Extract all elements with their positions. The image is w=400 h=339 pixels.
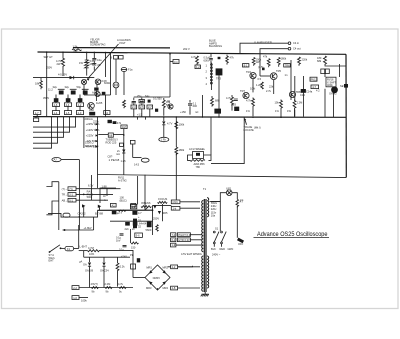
wire: F to column bbox=[74, 248, 79, 250]
wire: x96 drop bbox=[97, 117, 99, 188]
wire: bus tick2 bbox=[145, 117, 147, 120]
transistor TR1a circle bbox=[95, 91, 100, 96]
transformer T1 secondary winding lower bbox=[207, 256, 209, 288]
node: junction dot heater row2 bbox=[83, 194, 85, 196]
wire: drop to R29 bbox=[117, 257, 119, 263]
resistor R18 above bus bbox=[252, 98, 255, 117]
tag box row2 a bbox=[52, 111, 59, 115]
tag box A1 bbox=[111, 203, 117, 207]
tag box e2 bbox=[72, 296, 79, 300]
node: arrow -22V bbox=[96, 134, 99, 136]
switch S1b arm bbox=[221, 232, 226, 243]
tag box 88 tube delay bbox=[108, 133, 113, 137]
RV15 pot box bbox=[310, 77, 317, 81]
thyristor CSR1 circle with X bbox=[81, 79, 86, 84]
transistor TR4 circle bbox=[250, 73, 256, 79]
svg-text:50µ: 50µ bbox=[77, 85, 82, 89]
diode D6 lead bbox=[99, 206, 101, 210]
svg-text:1-8: 1-8 bbox=[140, 99, 144, 103]
bridge diode MR3 bbox=[149, 281, 152, 284]
svg-text:6.3V: 6.3V bbox=[88, 183, 94, 187]
svg-text:A FLYWHEEL: A FLYWHEEL bbox=[189, 147, 206, 151]
wire: intens feed column bbox=[137, 176, 139, 204]
transformer T1 secondary winding upper bbox=[207, 198, 209, 217]
diode D3 bar bbox=[122, 152, 125, 154]
diode D8 bbox=[102, 263, 105, 266]
svg-text:BLK: BLK bbox=[211, 247, 216, 251]
wire m3 drop bbox=[149, 109, 151, 117]
svg-text:0.1/350: 0.1/350 bbox=[153, 97, 162, 101]
svg-text:2-8: 2-8 bbox=[172, 286, 176, 290]
junction dot e bbox=[105, 52, 107, 54]
wire: TR1 emitter down bbox=[96, 85, 98, 88]
node: arrow +64V bbox=[96, 140, 99, 142]
svg-text:1-4: 1-4 bbox=[54, 111, 58, 115]
tag box pair right bbox=[325, 69, 329, 74]
tag box pair left bbox=[321, 69, 325, 74]
SK1 pin 6 bbox=[211, 79, 213, 81]
svg-text:350V: 350V bbox=[43, 96, 49, 100]
svg-text:250V: 250V bbox=[46, 66, 52, 70]
wire: e2 row line bbox=[79, 297, 88, 299]
wire: x145 drop bbox=[144, 175, 146, 210]
wire: box rows link c bbox=[79, 106, 81, 110]
svg-text:OA202: OA202 bbox=[78, 211, 87, 215]
svg-text:7-0: 7-0 bbox=[172, 233, 176, 237]
tag box row1 c bbox=[76, 103, 83, 107]
wire: vertical from bus x46.7 bbox=[46, 52, 48, 117]
resistor R38 far left bbox=[40, 80, 43, 89]
svg-text:TR7: TR7 bbox=[240, 89, 245, 93]
tag box row2 b bbox=[64, 111, 71, 115]
tag box far left lower bbox=[34, 118, 39, 122]
wire: transformer right taps bbox=[210, 201, 221, 203]
resistor R22 10k bbox=[162, 98, 165, 116]
connector strip SK1 bbox=[210, 63, 212, 90]
wire: terminal in to bus riser bbox=[240, 43, 288, 53]
switch S1b contact bottom bbox=[221, 242, 223, 244]
wire: right HT vertical drop bbox=[345, 54, 347, 177]
junction dot f bbox=[169, 53, 171, 55]
gang control dark circle bbox=[331, 86, 338, 93]
electrolytic C9 below TR2 bbox=[89, 112, 95, 116]
wire: C4out column into TR5 bbox=[259, 58, 261, 76]
capacitor C12 bbox=[234, 99, 238, 100]
resistor R26 below flywheel bbox=[190, 159, 205, 161]
svg-text:0.5: 0.5 bbox=[258, 77, 262, 81]
svg-text:2.7k: 2.7k bbox=[266, 89, 272, 93]
wire: EHT column x78.7 bbox=[78, 225, 80, 249]
tag box 7A bbox=[104, 111, 110, 115]
resistor R19 above bus bbox=[280, 100, 283, 117]
junction dot d bbox=[94, 52, 96, 54]
wire: D7 down bbox=[89, 266, 91, 287]
wire: f2 drop bbox=[132, 144, 134, 151]
wire: grid rail y174.5 bbox=[98, 175, 347, 178]
pot RV10 zigzag bbox=[141, 206, 151, 208]
svg-text:mA: mA bbox=[116, 152, 120, 156]
mid top tag box m3 bbox=[147, 105, 153, 109]
C7 plate bbox=[70, 88, 77, 90]
svg-text:C4 in: C4 in bbox=[293, 41, 300, 45]
svg-text:2.2M: 2.2M bbox=[105, 282, 111, 286]
svg-text:X AMPLIFIER: X AMPLIFIER bbox=[254, 41, 272, 45]
bridge rectifier diamond bbox=[145, 265, 170, 290]
svg-text:2-2: 2-2 bbox=[73, 286, 77, 290]
wire: lamp left loop bbox=[211, 193, 226, 202]
svg-text:47k: 47k bbox=[230, 55, 235, 59]
resistor R10 4.7k left of SK bbox=[196, 56, 199, 65]
chassis ground stem bbox=[204, 292, 206, 294]
svg-text:47k(?): 47k(?) bbox=[91, 282, 98, 286]
transistor TR10 internals bbox=[169, 105, 171, 108]
wire: bus tick1 bbox=[137, 117, 139, 120]
wire: f2 column down bbox=[132, 151, 134, 158]
svg-text:OFF: OFF bbox=[238, 242, 244, 246]
tag box h2 bbox=[68, 193, 76, 197]
svg-text:SCREW/TAG: SCREW/TAG bbox=[90, 43, 106, 47]
wire: mid link y160 flyback to trigger bbox=[175, 153, 177, 190]
RV16 X shift box bbox=[326, 77, 336, 87]
diode D5 lead bbox=[83, 206, 85, 217]
resistor R11 bbox=[226, 55, 229, 65]
svg-text:1W: 1W bbox=[79, 61, 83, 65]
svg-text:AB→: AB→ bbox=[62, 198, 68, 202]
resistor R2 4.7M vertical bbox=[62, 52, 65, 76]
title underline bbox=[254, 236, 330, 238]
svg-text:S1: S1 bbox=[215, 227, 219, 231]
transistor TR1 circle bbox=[95, 79, 101, 85]
resistor R34 lamp bbox=[236, 199, 239, 207]
transistor TR8 circle bbox=[289, 91, 295, 97]
wire: top EHT link y230 bbox=[63, 229, 94, 231]
svg-text:68k: 68k bbox=[317, 59, 322, 63]
capacitor C24 top right EHT bbox=[120, 234, 124, 235]
wire: feed box link bbox=[170, 61, 173, 63]
resistor R31 2.2k bbox=[105, 287, 112, 289]
zener D1 stack bbox=[85, 60, 89, 76]
svg-text:±480V: ±480V bbox=[153, 276, 161, 280]
svg-text:150: 150 bbox=[131, 246, 136, 250]
switch S1a contact top bbox=[213, 231, 215, 233]
svg-text:TR6: TR6 bbox=[285, 63, 290, 67]
wire: e1 row line bbox=[79, 287, 133, 289]
resistor R21 180k right bbox=[324, 56, 327, 65]
wire: left HT stub bbox=[130, 229, 132, 243]
transistor TR7 circle bbox=[243, 92, 249, 98]
diode D10 bbox=[158, 211, 161, 214]
switch S2 throw dot bbox=[60, 247, 62, 249]
wire h2 right bbox=[76, 193, 113, 195]
svg-text:680: 680 bbox=[215, 99, 220, 103]
tag box f2 bbox=[130, 140, 135, 144]
wire: xshift drop a bbox=[324, 89, 326, 117]
svg-text:1.2k: 1.2k bbox=[256, 83, 262, 87]
svg-text:4.7V: 4.7V bbox=[167, 122, 173, 126]
wire: bias rail y210.4 bbox=[98, 209, 153, 211]
electrolytic C7 bbox=[71, 91, 76, 95]
tag box C small bbox=[131, 203, 136, 207]
wire: RV10 feed column bbox=[91, 175, 93, 200]
svg-text:SET: SET bbox=[340, 84, 345, 88]
transistor TR2 circle bbox=[88, 103, 95, 110]
svg-text:F1a: F1a bbox=[128, 68, 133, 72]
SK1 pin 2 bbox=[211, 67, 213, 69]
svg-text:220k: 220k bbox=[302, 58, 308, 62]
svg-text:1kV: 1kV bbox=[116, 238, 121, 242]
svg-text:C4 out: C4 out bbox=[293, 47, 301, 51]
terminal C4 in bbox=[288, 42, 291, 45]
tag box e1 bbox=[72, 286, 79, 290]
tag box HT left bbox=[135, 233, 143, 237]
transistor TR1 internals bbox=[97, 80, 100, 84]
svg-text:500k: 500k bbox=[87, 195, 93, 199]
transistor TR5 circle bbox=[270, 73, 277, 80]
svg-text:1-5: 1-5 bbox=[66, 111, 70, 115]
wire: trigger column x176.3 bbox=[175, 117, 177, 147]
svg-text:BLANKING: BLANKING bbox=[209, 44, 222, 48]
tag box mid extra bbox=[139, 99, 144, 102]
svg-text:(7)→: (7)→ bbox=[62, 187, 68, 191]
svg-text:ILP1: ILP1 bbox=[226, 186, 232, 190]
resistor R12 4.7k above bus bbox=[231, 95, 234, 111]
transformer T1 core left line bbox=[203, 199, 205, 292]
svg-text:OAC34: OAC34 bbox=[100, 269, 109, 273]
wire: flywheel loop right bbox=[204, 155, 212, 160]
oval tag bottom left bbox=[63, 213, 70, 217]
wire: box rows link a bbox=[55, 106, 57, 110]
svg-text:5600: 5600 bbox=[146, 228, 152, 232]
svg-text:RV15: RV15 bbox=[311, 77, 318, 81]
svg-text:PE: PE bbox=[130, 253, 134, 257]
svg-text:MR4: MR4 bbox=[163, 286, 169, 290]
tag box 2-2 bridge top bbox=[171, 265, 178, 269]
resistor R13 100k bbox=[252, 57, 255, 65]
wire: vertical from bus x86.7 bbox=[86, 52, 88, 60]
transistor TR1a internals bbox=[96, 92, 98, 95]
svg-text:10a: 10a bbox=[211, 214, 216, 218]
svg-text:47k: 47k bbox=[117, 121, 122, 125]
svg-text:MR1: MR1 bbox=[147, 266, 153, 270]
junction dot j bbox=[280, 116, 282, 118]
wire: blanking column vertical bbox=[123, 129, 125, 175]
svg-text:.05: .05 bbox=[97, 63, 101, 67]
svg-text:L-EHT: L-EHT bbox=[80, 245, 88, 249]
pot RV12 zigzag bbox=[158, 201, 168, 203]
svg-text:1-6: 1-6 bbox=[131, 205, 135, 209]
svg-text:180k: 180k bbox=[281, 56, 287, 60]
wire: bridge left lead bbox=[133, 277, 145, 279]
wire: EHT link vertical bbox=[93, 217, 95, 230]
svg-text:Advance OS25 Oscilloscope: Advance OS25 Oscilloscope bbox=[257, 231, 328, 238]
svg-text:MR3: MR3 bbox=[146, 286, 152, 290]
svg-text:250V: 250V bbox=[153, 217, 159, 221]
svg-text:2-1: 2-1 bbox=[69, 193, 73, 197]
svg-text:SET HT: SET HT bbox=[44, 55, 54, 59]
wire: vertical x116 below boxes bbox=[115, 59, 117, 67]
wire: terminal out leftward bbox=[260, 49, 288, 58]
svg-text:LOCATE: LOCATE bbox=[244, 128, 254, 132]
wire: R28 lead left bbox=[79, 250, 88, 252]
svg-text:HTR 6.3V: HTR 6.3V bbox=[178, 238, 190, 242]
resistor R23 680 bbox=[211, 96, 214, 107]
capacitor C31 blob mid bbox=[155, 109, 158, 112]
wire: EHT sub bus y257 bbox=[84, 256, 130, 258]
wire: emitter links y82 bbox=[252, 79, 254, 93]
svg-text:15k: 15k bbox=[275, 101, 280, 105]
oval tag L bbox=[159, 137, 169, 141]
switch S1a arm bbox=[214, 232, 219, 243]
wire: x162.5 vertical bbox=[162, 204, 164, 221]
diode D6 bbox=[98, 205, 101, 208]
wire: bracket long vertical bbox=[58, 182, 60, 230]
bridge diode MR4 bbox=[162, 281, 165, 284]
transformer T1 core right line bbox=[205, 199, 207, 292]
tag box on feed column bbox=[173, 60, 179, 64]
capacitor C11 bbox=[209, 54, 213, 63]
svg-text:4 2: 4 2 bbox=[316, 89, 320, 93]
wire: lower bias rail y221 bbox=[110, 220, 153, 222]
wire: bridge bottom lead bbox=[178, 287, 200, 289]
label: 5th arrow extra bbox=[96, 146, 99, 148]
resistor R28 4.7M EHT bbox=[88, 250, 100, 252]
junction dot a bbox=[46, 51, 48, 53]
svg-text:GRN: GRN bbox=[228, 247, 234, 251]
wire: base link TR5 bbox=[260, 75, 270, 77]
svg-text:SWG: SWG bbox=[211, 201, 217, 205]
wire: trace locate arrow bbox=[245, 119, 247, 125]
wire: TR3 column to bus bbox=[218, 95, 220, 117]
wire: xshift drop b bbox=[333, 93, 335, 118]
wire: A7 line right bbox=[61, 159, 79, 161]
svg-text:200mA: 200mA bbox=[85, 117, 93, 121]
TR6 tag box bbox=[284, 64, 291, 67]
capacitor C20 on right vertical bbox=[344, 84, 348, 88]
resistor R24 100k bbox=[175, 122, 178, 129]
svg-text:4.7k: 4.7k bbox=[226, 96, 232, 100]
resistor R37 left HT bbox=[131, 242, 138, 244]
electrolytic C8b bbox=[78, 98, 83, 102]
svg-text:+120V 10%: +120V 10% bbox=[86, 128, 100, 132]
svg-text:7A: 7A bbox=[105, 111, 108, 115]
svg-text:11.2: 11.2 bbox=[48, 88, 53, 92]
svg-text:2W: 2W bbox=[57, 62, 61, 66]
switch S1b contact top bbox=[221, 231, 223, 233]
transistor TR5 internals bbox=[272, 74, 275, 78]
switch S2 EHT diagonal bbox=[50, 245, 61, 252]
tag box row1 b bbox=[64, 103, 71, 107]
transistor TR10 circle mid bbox=[168, 104, 173, 109]
svg-text:1.25: 1.25 bbox=[121, 159, 127, 163]
node: arrow +225V bbox=[96, 123, 99, 125]
svg-text:2-2: 2-2 bbox=[172, 265, 176, 269]
svg-text:TR3: TR3 bbox=[216, 76, 221, 80]
svg-text:1 PE/C8: 1 PE/C8 bbox=[109, 158, 120, 162]
junction dot b bbox=[62, 51, 64, 53]
SK1 pin 3 bbox=[211, 70, 213, 72]
capacitor C18 inside flywheel bbox=[196, 153, 200, 156]
connector boxes B pair second bbox=[119, 56, 124, 60]
transformer T1 primary winding upper bbox=[202, 201, 204, 252]
svg-text:1M: 1M bbox=[122, 125, 126, 129]
svg-text:600Ω: 600Ω bbox=[104, 81, 110, 85]
wire: flywheel loop left bbox=[188, 155, 193, 160]
switch OFF blob bbox=[237, 238, 244, 244]
diode D9 focus bbox=[153, 206, 156, 209]
svg-text:C14a: C14a bbox=[306, 90, 313, 94]
svg-text:2-2: 2-2 bbox=[78, 103, 82, 107]
wire: bias rail left hook bbox=[48, 210, 98, 217]
wire: staircase drop 3 bbox=[33, 117, 64, 138]
wire: x105.5 lower continue bbox=[105, 95, 107, 117]
svg-text:µA: µA bbox=[79, 259, 82, 263]
svg-text:FOCUS: FOCUS bbox=[158, 197, 167, 201]
flywheel box bbox=[193, 152, 204, 159]
tag box h3 bbox=[68, 198, 76, 202]
svg-text:AB2: AB2 bbox=[89, 108, 94, 112]
junction dot n bbox=[152, 209, 154, 211]
transformer T1 primary winding lower bbox=[202, 256, 204, 291]
junction dot k bbox=[163, 116, 165, 118]
wire: zener column from bus bbox=[163, 117, 165, 121]
switch S2 pole dot bbox=[49, 251, 51, 253]
resistor R20 above bus bbox=[293, 100, 296, 117]
bridge diode MR2 bbox=[162, 270, 165, 273]
diode D7 bbox=[88, 263, 91, 266]
svg-text:(Mk I): (Mk I) bbox=[254, 126, 261, 130]
electrolytic C6 bbox=[59, 91, 64, 95]
electrolytic C19 on bias rail bbox=[112, 211, 117, 214]
capacitor C33 blob mid2 bbox=[148, 100, 151, 103]
power transistor TR3 dark bbox=[216, 68, 223, 75]
capacitor C25 bbox=[123, 245, 127, 246]
svg-text:+225V: +225V bbox=[86, 133, 94, 137]
wire: staircase drop 2 bbox=[33, 117, 70, 133]
oval tag 14-5 bbox=[141, 158, 149, 162]
resistor R25 180k bbox=[175, 147, 178, 155]
svg-text:2-4: 2-4 bbox=[66, 103, 70, 107]
junction dot i bbox=[252, 116, 254, 118]
neon lamp NE1 circle bbox=[113, 82, 119, 88]
wire: 88 box to blanking column bbox=[98, 134, 108, 136]
svg-text:100k: 100k bbox=[81, 298, 87, 302]
resistor R30 47k bbox=[91, 287, 98, 289]
svg-text:0.1µ: 0.1µ bbox=[119, 247, 125, 251]
svg-text:600V: 600V bbox=[204, 58, 210, 62]
node: junction dot y230 bbox=[64, 229, 66, 231]
wire: box rows link b bbox=[67, 106, 69, 110]
tag box w2 wide bbox=[177, 238, 190, 242]
svg-text:+150: +150 bbox=[180, 110, 186, 114]
diode D2 bar bbox=[73, 76, 75, 79]
svg-text:±2kV: ±2kV bbox=[121, 255, 127, 259]
diode D3 blanking bbox=[122, 150, 125, 153]
wire: bridge top tag to transformer bbox=[168, 266, 193, 267]
resistor R27 bbox=[118, 210, 125, 211]
wire: left tag drop bbox=[36, 115, 38, 117]
wire m1 drop bbox=[133, 109, 135, 117]
wire: C14 link bbox=[303, 76, 305, 117]
terminal C4 out bbox=[288, 47, 291, 50]
wire: zener to L oval bbox=[163, 125, 165, 138]
svg-text:22n: 22n bbox=[125, 227, 130, 231]
pot RV10 wiper bbox=[146, 207, 148, 209]
svg-text:400k: 400k bbox=[327, 83, 333, 87]
wire: staircase drop 1 bbox=[33, 117, 76, 128]
wire: supply feed vertical bbox=[83, 117, 85, 148]
resistor R36 220k bbox=[298, 57, 301, 66]
svg-text:4.7: 4.7 bbox=[138, 211, 142, 215]
